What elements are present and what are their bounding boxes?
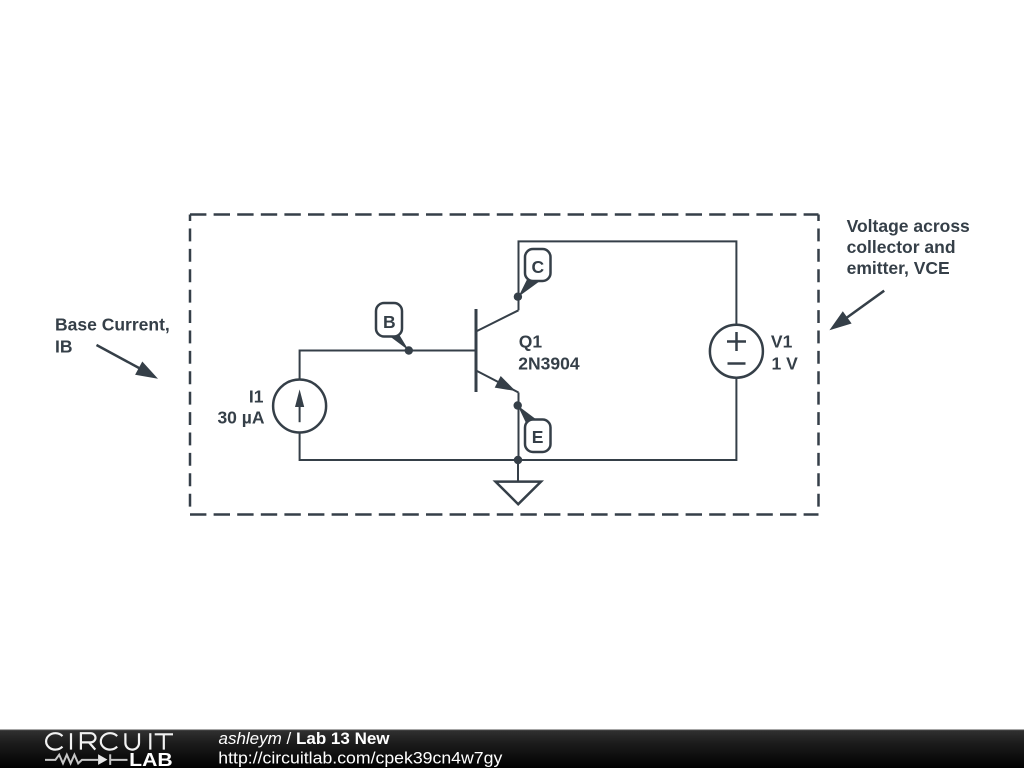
arrow to base wire [97,345,159,379]
svg-text:Q1: Q1 [519,332,543,352]
wire bottom right: emitter node to V1 bottom [518,379,736,461]
svg-text:IB: IB [55,337,73,357]
voltage source V1 [710,325,763,378]
transistor Q1 [476,309,519,393]
wire ground stub [517,460,519,482]
svg-text:E: E [532,427,544,447]
node C [514,249,551,301]
current source I1 [273,380,326,433]
svg-text:I1: I1 [249,387,264,407]
svg-text:Voltage across: Voltage across [847,216,970,236]
annotation: Base Current, IB [55,314,170,356]
svg-text:2N3904: 2N3904 [518,353,580,373]
node E [514,401,551,452]
svg-text:LAB: LAB [129,750,173,768]
svg-text:C: C [531,257,544,277]
wire base: I1 top to Q1 base [300,351,476,380]
dashed bounding box [190,215,819,515]
wire bottom left: I1 bottom to emitter node [300,433,518,460]
svg-text:collector and: collector and [847,237,956,257]
svg-text:ashleym / Lab 13 New: ashleym / Lab 13 New [219,729,391,748]
svg-text:emitter, VCE: emitter, VCE [847,258,950,278]
footer bar [0,730,1024,768]
annotation: Voltage across collector and emitter, VCE [847,216,970,278]
svg-text:B: B [383,312,396,332]
svg-text:V1: V1 [771,331,793,351]
svg-text:30 µA: 30 µA [217,407,264,427]
svg-text:Base Current,: Base Current, [55,314,170,334]
wire collector diagonal [477,310,519,331]
wire emitter vertical [518,393,520,461]
ground [496,482,542,505]
arrow to right edge [829,291,884,331]
logo resistor-diode symbol [45,754,128,765]
svg-text:http://circuitlab.com/cpek39cn: http://circuitlab.com/cpek39cn4w7gy [218,748,503,767]
junction dot [514,456,522,464]
wire top: collector to V1 top [519,241,737,324]
node B [376,303,413,355]
logo CIRCUIT [46,733,173,749]
svg-text:1 V: 1 V [772,353,799,373]
